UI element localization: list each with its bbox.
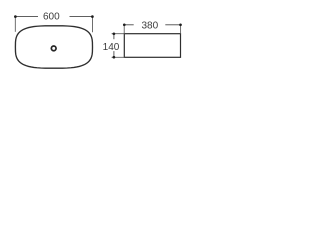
arrow dot right of 600 [91, 15, 94, 18]
dimension line 600 (left segment) [15, 16, 38, 18]
svg-text:140: 140 [103, 42, 120, 53]
extension line right of 600 dimension [92, 17, 94, 33]
dimension line 140 (bottom segment) [113, 51, 115, 57]
dimension line 380 (right segment) [165, 24, 180, 26]
extension tick bottom of 140 dimension [112, 56, 125, 58]
arrow dot right of 380 [179, 23, 182, 26]
dimension line 140 (top segment) [113, 34, 115, 40]
background [0, 0, 200, 91]
drain hole circle [51, 46, 56, 51]
arrow dot top of 140 [113, 32, 116, 35]
extension line left of 380 dimension [123, 24, 125, 34]
side view rectangle [124, 34, 180, 58]
extension line right of 380 dimension [180, 24, 182, 34]
dimension line 380 (left segment) [124, 24, 134, 26]
arrow dot left of 380 [123, 23, 126, 26]
extension tick top of 140 dimension [112, 33, 125, 35]
svg-text:380: 380 [141, 21, 158, 32]
arrow dot left of 600 [14, 15, 17, 18]
svg-text:600: 600 [43, 12, 60, 23]
arrow dot bottom of 140 [113, 56, 116, 59]
extension line left of 600 dimension [14, 17, 16, 32]
basin outline (top view oval) [15, 26, 92, 68]
dimension line 600 (right segment) [70, 16, 93, 18]
